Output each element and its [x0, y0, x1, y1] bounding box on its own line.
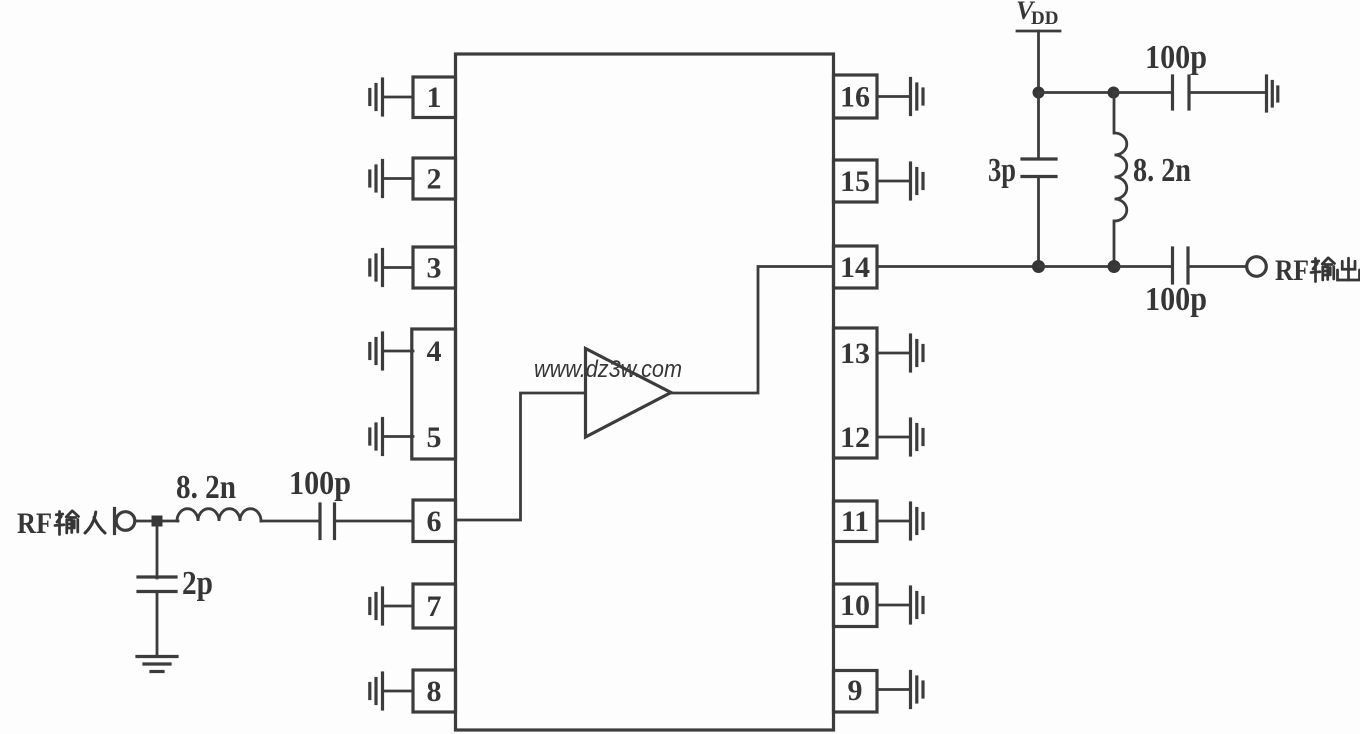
ground below C2	[137, 657, 177, 672]
pin 14	[834, 246, 878, 288]
ground at pin 10	[877, 587, 923, 623]
wire C1 to pin 6	[336, 520, 413, 523]
wire pin 14 to node C	[877, 265, 1039, 268]
svg-text:8. 2n: 8. 2n	[1133, 152, 1191, 189]
label RF output (RF&#36755;&#20986;)	[1275, 254, 1360, 287]
wire C5 to output connector	[1190, 265, 1247, 268]
svg-text:DD: DD	[1031, 8, 1058, 29]
wire C2 to ground	[156, 592, 159, 656]
capacitor C4 3p	[1022, 159, 1056, 177]
wire C3 to ground	[1191, 91, 1267, 94]
wire C4 to node C	[1037, 178, 1040, 266]
svg-text:10: 10	[840, 589, 870, 622]
svg-text:2: 2	[427, 163, 442, 196]
wire input node to C2	[156, 524, 159, 578]
label RF input (RF&#36755;&#20837;)	[17, 507, 105, 540]
wire node D to C5	[1114, 265, 1171, 268]
pin 10	[834, 584, 878, 627]
ground at pin 5	[370, 419, 413, 455]
node B junction dot	[1108, 87, 1120, 99]
svg-text:16: 16	[840, 81, 870, 114]
capacitor C5 100p	[1173, 248, 1189, 283]
svg-text:7: 7	[427, 590, 442, 623]
svg-text:RF: RF	[1275, 254, 1309, 287]
inductor L2 8.2n	[1115, 133, 1127, 221]
svg-text:8: 8	[427, 675, 442, 708]
pin 15	[834, 160, 878, 202]
input node junction	[152, 516, 163, 527]
ground at pin 9	[877, 672, 923, 708]
IC U1 body	[456, 54, 834, 730]
pin 1	[413, 77, 456, 118]
svg-text:4: 4	[427, 335, 442, 368]
label C3 value 100p	[1145, 39, 1207, 76]
ground at pin 7	[370, 588, 413, 624]
ground at pin 3	[370, 250, 413, 286]
wire node B to L2	[1113, 93, 1116, 134]
pin 9	[834, 671, 878, 713]
wire node B to C3	[1114, 91, 1172, 94]
pin 16	[834, 75, 878, 118]
capacitor C3 100p	[1173, 76, 1190, 109]
label C1 value 100p	[289, 465, 351, 502]
ground at pin 16	[877, 79, 923, 115]
pins 13 and 12 shared box	[834, 328, 878, 458]
op-amp A1	[586, 349, 672, 438]
pins 4 and 5 shared box	[412, 329, 456, 459]
ground at pin 15	[877, 163, 923, 199]
pin 3	[413, 247, 456, 288]
node A junction dot	[1033, 87, 1045, 99]
label L1 value 8.2n	[176, 469, 236, 506]
capacitor C2 2p	[138, 577, 176, 592]
pin 6	[413, 500, 456, 542]
wire node A to node B	[1039, 91, 1114, 94]
VDD supply symbol	[1016, 0, 1060, 31]
node D junction dot	[1108, 260, 1121, 273]
svg-text:6: 6	[427, 505, 442, 538]
svg-text:1: 1	[427, 81, 442, 114]
ground right of C3	[1267, 76, 1278, 111]
wire amplifier output to pin 14	[671, 267, 834, 394]
svg-text:12: 12	[840, 421, 870, 454]
svg-text:2p: 2p	[182, 565, 213, 602]
svg-text:3p: 3p	[988, 152, 1016, 189]
svg-text:100p: 100p	[1145, 39, 1207, 76]
pin 11	[834, 501, 878, 542]
svg-text:3: 3	[427, 252, 442, 285]
ground at pin 13	[877, 335, 923, 371]
svg-text:100p: 100p	[289, 465, 351, 502]
svg-text:14: 14	[840, 251, 870, 284]
svg-text:13: 13	[840, 337, 870, 370]
svg-text:11: 11	[841, 505, 869, 538]
ground at pin 1	[370, 79, 413, 115]
wire VDD to node A	[1037, 31, 1040, 93]
RF output connector J2	[1247, 257, 1267, 277]
ground at pin 12	[877, 419, 923, 455]
svg-text:8. 2n: 8. 2n	[176, 469, 236, 506]
wire L2 to node D	[1113, 221, 1116, 266]
ground at pin 2	[370, 161, 413, 197]
svg-text:9: 9	[848, 674, 863, 707]
label L2 value 8.2n	[1133, 152, 1191, 189]
capacitor C1 100p	[320, 504, 335, 539]
ground at pin 11	[877, 503, 923, 539]
svg-text:RF: RF	[17, 507, 52, 540]
label C2 value 2p	[182, 565, 213, 602]
wire L1 to C1	[261, 520, 319, 523]
RF input connector J1	[115, 509, 135, 534]
label C5 value 100p	[1145, 281, 1207, 318]
svg-text:5: 5	[427, 421, 442, 454]
node C junction dot	[1032, 260, 1045, 273]
wire pin 6 to amplifier input	[456, 393, 585, 520]
ground at pin 4	[370, 333, 413, 369]
svg-text:100p: 100p	[1145, 281, 1207, 318]
pin 2	[413, 158, 456, 199]
svg-text:15: 15	[840, 165, 870, 198]
pin 7	[413, 584, 456, 628]
ground at pin 8	[370, 673, 413, 709]
watermark www.dz3w.com	[534, 356, 682, 383]
wire node C to node D	[1039, 265, 1115, 268]
inductor L1 8.2n	[177, 509, 261, 521]
wire input connector to node	[135, 520, 178, 523]
wire node A to C4	[1037, 93, 1040, 159]
label C4 value 3p	[988, 152, 1016, 189]
pin 8	[413, 670, 456, 712]
